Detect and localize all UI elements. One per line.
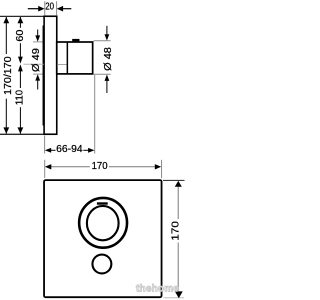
dimension 20: dimension line right + arrow bbox=[62, 8, 71, 10]
svg-text:20: 20 bbox=[45, 1, 54, 12]
extension line knob top left (for dia 49) bbox=[33, 41, 44, 43]
dimension 66-94: extension lines bbox=[44, 136, 46, 154]
side view plate (escutcheon edge-on) bbox=[44, 16, 57, 134]
side view knob sleeve division line bbox=[66, 42, 68, 74]
front view: top 170 dimension line + arrows bbox=[50, 166, 90, 168]
front view: top 170 extension lines bbox=[44, 160, 46, 178]
dimension 20: dimension line left + arrow bbox=[28, 8, 40, 10]
side view mounting flange line behind plate bbox=[42, 26, 44, 126]
dimension 170/170: line with arrows bbox=[5, 17, 7, 54]
extension line knob bottom left (for dia 49) bbox=[33, 73, 44, 75]
svg-text:170: 170 bbox=[171, 221, 182, 241]
front view: knob marker tick bbox=[97, 202, 108, 204]
front view: knob outer ring bbox=[79, 198, 127, 248]
dimension dia 48: extension lines right of knob bbox=[94, 40, 111, 42]
svg-text:thehome: thehome bbox=[136, 283, 179, 294]
side view knob marker tick bbox=[72, 39, 79, 42]
front view: knob inner circle bbox=[87, 206, 119, 240]
front view: square plate bbox=[44, 180, 162, 297]
dimension 110: line + text bbox=[19, 71, 21, 88]
dimension dia 48: arrows outside bbox=[106, 26, 108, 36]
dimension 66-94: line + arrows bbox=[50, 149, 56, 151]
svg-text:170: 170 bbox=[92, 161, 108, 172]
front view: select button circle bbox=[92, 255, 111, 274]
svg-text:110: 110 bbox=[14, 89, 25, 105]
svg-text:66-94: 66-94 bbox=[56, 144, 83, 155]
dimension 60: line + text bbox=[19, 17, 21, 28]
front view: right 170 extension lines bbox=[163, 179, 185, 181]
side view: top extension line (plate top extended left) bbox=[0, 15, 44, 17]
dimension 20: extension lines bbox=[44, 1, 46, 15]
side view: bottom extension line (plate bottom extended left) bbox=[0, 133, 44, 135]
front view: right 170 dimension line + arrows bbox=[177, 186, 179, 219]
svg-text:170/170: 170/170 bbox=[3, 56, 14, 95]
side view knob body bbox=[57, 42, 93, 74]
svg-text:Ø 49: Ø 49 bbox=[31, 48, 42, 72]
dimension dia 49: arrows outside bbox=[37, 30, 39, 37]
extension line knob centre (for 60/110 chain) bbox=[24, 63, 44, 65]
svg-text:60: 60 bbox=[15, 29, 26, 41]
svg-text:Ø 48: Ø 48 bbox=[103, 47, 114, 71]
